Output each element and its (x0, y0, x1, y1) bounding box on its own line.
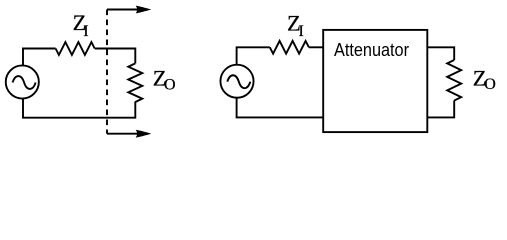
wire: attenuator left bottom to V2 bottom (237, 98, 324, 118)
wire: resistor ZO bottom to bottom rail (23, 99, 135, 118)
dashed cut line (106, 10, 108, 134)
wire: resistor ZO bottom to attenuator right bottom (427, 101, 454, 118)
wire: attenuator right top to resistor ZO top (427, 47, 454, 60)
resistor ZO (left circuit, vertical zigzag) (128, 63, 142, 102)
svg-text:O: O (164, 76, 176, 93)
wire: V1 top to resistor ZI left (23, 49, 56, 66)
top arrow (input port direction) (107, 6, 151, 14)
bottom arrow (output port direction) (107, 130, 151, 138)
svg-text:I: I (299, 23, 304, 40)
resistor ZI (left circuit, horizontal zigzag) (56, 42, 95, 55)
attenuator box U1 (323, 30, 427, 132)
wire: resistor ZI right to top-right corner (95, 49, 136, 64)
sine symbol of V1 (13, 76, 36, 89)
AC source V1 (left circuit) (6, 65, 39, 98)
wire: V2 top to resistor ZI left (237, 47, 270, 64)
svg-text:Attenuator: Attenuator (334, 40, 409, 60)
resistor ZI (right circuit, horizontal zigzag) (270, 41, 309, 54)
wire: resistor ZI right to attenuator box (309, 46, 323, 48)
svg-text:I: I (83, 23, 88, 40)
sine symbol of V2 (227, 75, 250, 88)
svg-text:O: O (484, 76, 496, 93)
resistor ZO (right circuit, vertical zigzag) (447, 60, 461, 101)
AC source V2 (right circuit) (220, 65, 253, 98)
